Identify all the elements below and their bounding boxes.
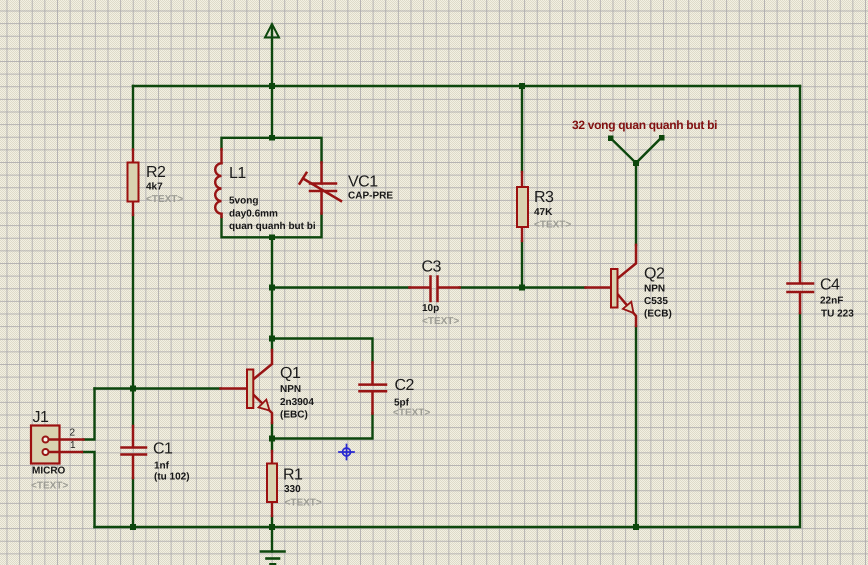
connector J1 [31,426,84,464]
wire Q2 emitter column [635,326,637,527]
wire left column upper (top rail to R2) [132,86,134,150]
svg-text:47K: 47K [534,207,553,218]
wire left column mid (R2 to C1) [132,215,134,426]
svg-text:C4: C4 [820,277,840,294]
capacitor C4 [788,263,814,314]
svg-text:J1: J1 [33,409,50,426]
capacitor C3 [410,277,460,302]
node bottom rail / C1 column [130,524,136,530]
svg-text:quan quanh but bi: quan quanh but bi [229,221,316,232]
svg-text:NPN: NPN [644,284,665,295]
svg-text:R2: R2 [146,164,166,181]
wire power column [271,25,273,138]
svg-text:(tu 102): (tu 102) [154,472,190,483]
svg-text:day0.6mm: day0.6mm [229,209,278,220]
svg-text:L1: L1 [229,165,246,182]
svg-text:MICRO: MICRO [32,466,66,477]
node bottom rail / ground [269,524,275,530]
svg-text:2: 2 [70,428,76,439]
svg-text:CAP-PRE: CAP-PRE [348,191,393,202]
capacitor C2 [360,363,387,414]
node bottom rail / Q2 emitter [633,524,639,530]
wire right column upper (to C4) [799,86,801,263]
resistor R3 [517,172,528,241]
wire C2 top branch [272,339,373,363]
inductor L1 [215,149,221,217]
wire C3 right to Q2 base [460,286,586,288]
wire antenna left arm [611,138,637,163]
transistor Q2 [586,245,637,326]
origin marker (blue crosshair) [339,445,354,460]
svg-text:C3: C3 [422,259,442,276]
node antenna right tip [659,135,665,141]
wire R1 to bottom rail [271,516,273,527]
node L1 box top [269,135,275,141]
ground [261,552,285,565]
svg-text:VC1: VC1 [348,174,378,191]
svg-text:TU 223: TU 223 [821,309,854,320]
node C2 top / mid column [269,336,275,342]
svg-text:4k7: 4k7 [146,182,163,193]
wire J1 pin1 link [82,452,95,527]
svg-text:C2: C2 [395,377,415,394]
node top rail / power column [269,83,275,89]
wire left column lower (C1 to bottom rail) [132,478,134,527]
svg-text:Q1: Q1 [280,365,301,382]
wire mid column (box to Q1 collector) [271,237,273,350]
svg-text:C535: C535 [644,296,668,307]
svg-text:1nf: 1nf [154,460,170,471]
svg-text:<TEXT>: <TEXT> [422,316,459,327]
node top rail / R3 column [519,83,525,89]
svg-text:22nF: 22nF [820,296,843,307]
power symbol arrow [265,24,279,38]
wire antenna right arm [636,138,662,164]
svg-text:32 vong quan quanh but bi: 32 vong quan quanh but bi [572,118,717,132]
node junction dots [130,83,664,530]
wire R3 column lower [521,241,523,288]
node base wire / R2-C1 column [130,386,136,392]
wire antenna mast [635,163,637,245]
wire ground stem [271,527,273,552]
node C3 wire / R3 column [519,285,525,291]
resistor R2 [128,150,139,216]
wire C3 left [272,286,410,288]
node antenna vertex [633,160,639,166]
svg-text:<TEXT>: <TEXT> [31,481,68,492]
wire top rail [133,85,800,87]
wire J1 pin2 link [84,389,95,440]
transistor Q1 [221,350,273,423]
resistor R1 [267,451,277,516]
svg-text:10p: 10p [422,303,439,314]
svg-text:<TEXT>: <TEXT> [146,194,183,205]
svg-text:(ECB): (ECB) [644,309,672,320]
variable capacitor VC1 [300,163,341,214]
svg-text:5vong: 5vong [229,196,258,207]
node antenna left tip [608,135,614,141]
svg-text:Q2: Q2 [644,266,665,283]
svg-text:(EBC): (EBC) [280,410,308,421]
node L1 box bottom [269,235,275,241]
wire R3 column upper [521,86,523,172]
node C2 bottom / emitter column [269,436,275,442]
wire C2 bottom branch [272,414,373,439]
wire right column lower + bottom rail [95,313,801,527]
capacitor C1 [122,426,147,478]
svg-text:R3: R3 [534,189,554,206]
svg-text:<TEXT>: <TEXT> [393,408,430,419]
svg-text:2n3904: 2n3904 [280,397,314,408]
svg-text:R1: R1 [283,467,303,484]
svg-text:C1: C1 [153,441,173,458]
svg-text:1: 1 [70,440,76,451]
wire base node horizontal (to Q1 base) [95,387,221,389]
svg-text:NPN: NPN [280,384,301,395]
node C3 wire / mid column [269,285,275,291]
wire L1/VC1 loop box [222,138,322,163]
svg-text:330: 330 [284,484,301,495]
svg-text:<TEXT>: <TEXT> [285,498,322,509]
svg-text:<TEXT>: <TEXT> [534,220,571,231]
wire Q1 emitter to R1 [271,423,273,451]
